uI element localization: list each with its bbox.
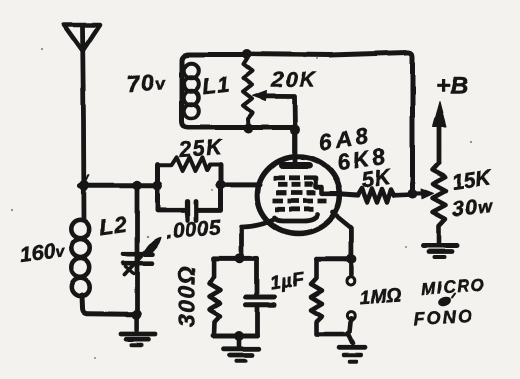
20K wiper arrow	[262, 96, 295, 129]
wire: to tube top cap	[293, 130, 298, 162]
inductor L2 stem	[81, 185, 86, 220]
node 25K left junction	[152, 180, 162, 190]
svg-text:30w: 30w	[451, 193, 494, 221]
node antenna/grid junction	[79, 180, 89, 190]
mic dot	[437, 295, 452, 308]
inductor L1 loops	[184, 63, 199, 118]
svg-text:+B: +B	[436, 73, 468, 100]
variable capacitor arrow	[125, 250, 148, 275]
svg-text:L2: L2	[98, 212, 129, 241]
wire: to 1M resistor	[317, 257, 349, 262]
svg-text:300Ω: 300Ω	[174, 265, 200, 327]
tube 6A8 envelope	[257, 157, 339, 234]
antenna	[64, 25, 101, 186]
tube top cap bar	[282, 162, 309, 169]
ground (15K)	[424, 246, 458, 258]
node cathode junction	[235, 253, 245, 263]
ground (cathode)	[224, 336, 258, 361]
resistor 5K	[340, 189, 413, 203]
resistor 15K 30w	[433, 163, 446, 243]
wire: bottom of cathode net	[214, 334, 257, 339]
node jack junction	[346, 254, 356, 264]
node tuning-cap junction	[132, 180, 142, 190]
potentiometer 20K	[244, 57, 253, 127]
node L2/tuning cap junction	[131, 310, 141, 320]
variable capacitor branch	[135, 185, 140, 313]
node 25K right junction	[215, 180, 225, 190]
capacitor 1uF	[254, 258, 259, 295]
tube plate step-out	[305, 178, 340, 194]
inductor L1 frame	[182, 55, 295, 128]
+B arrow	[437, 112, 442, 163]
capacitor .0005 plates	[185, 202, 190, 221]
svg-text:L1: L1	[201, 71, 232, 99]
wire: L2 bottom to ground junction	[82, 295, 136, 314]
capacitor .0005 frame wires	[158, 165, 185, 211]
svg-text:1µF: 1µF	[269, 269, 307, 295]
svg-text:1MΩ: 1MΩ	[359, 285, 402, 309]
ground (jack)	[340, 333, 366, 362]
resistor 1M ohm	[311, 259, 349, 334]
resistor 25K (top of parallel pair)	[158, 157, 221, 171]
svg-text:15K: 15K	[451, 166, 494, 194]
inductor L2 loops	[71, 220, 89, 296]
wire: main grid bus (antenna junction to tube)	[80, 182, 260, 187]
svg-text:.0005: .0005	[165, 216, 222, 244]
svg-text:70v: 70v	[126, 69, 166, 98]
mic jack terminal bottom	[347, 312, 355, 320]
svg-text:5K: 5K	[359, 163, 394, 193]
node bottom junction	[234, 331, 244, 341]
ground (tank)	[121, 315, 155, 345]
tube cathode	[275, 215, 318, 222]
svg-text:25K: 25K	[177, 135, 224, 162]
node 20K bottom junction	[244, 124, 254, 134]
node wiper/grid-cap junction	[290, 125, 300, 135]
svg-text:20K: 20K	[271, 68, 317, 92]
mic jack terminal top	[349, 261, 354, 275]
resistor 300 ohm	[210, 258, 221, 336]
wire: cathode net horizontal	[214, 256, 257, 261]
svg-text:FONO: FONO	[413, 306, 474, 329]
node 5K / right rail junction	[408, 189, 418, 199]
tube grid dashes	[273, 178, 327, 209]
node L1/20K top junction	[242, 49, 252, 59]
wire: cathode out to left	[242, 219, 277, 257]
svg-text:160v: 160v	[19, 239, 67, 267]
wire: top rail to right side	[247, 52, 413, 193]
variable capacitor plates	[124, 252, 153, 257]
wire: tube grid to mic jack	[333, 213, 352, 257]
wiper arrow into 15K	[413, 191, 427, 196]
